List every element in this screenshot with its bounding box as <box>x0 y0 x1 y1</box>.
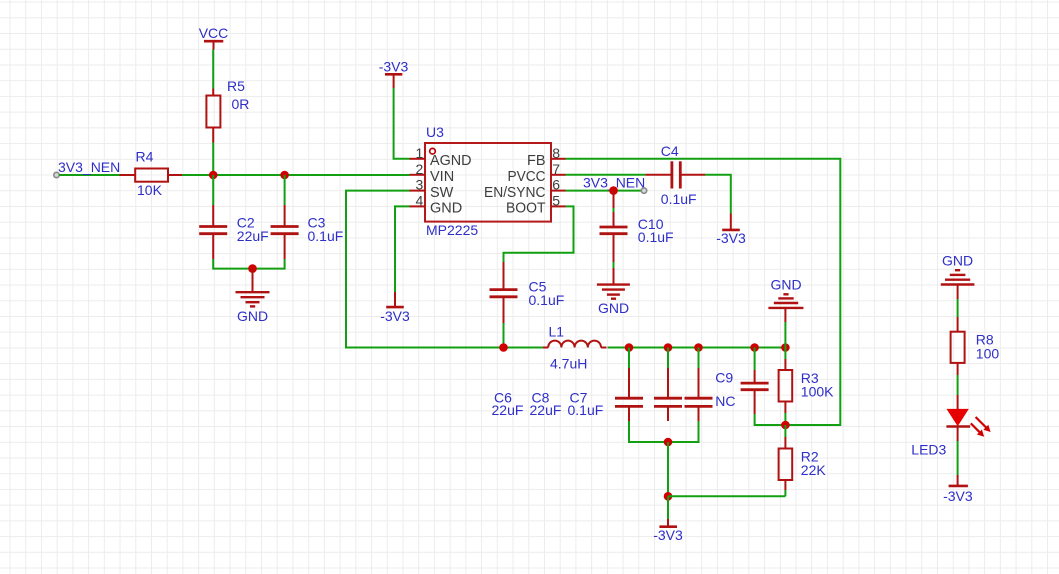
wire L1 to output rail <box>608 347 786 349</box>
svg-text:-3V3: -3V3 <box>379 59 409 75</box>
resistor R3 100K <box>779 359 835 413</box>
svg-text:6: 6 <box>552 177 560 193</box>
svg-text:3V3_NEN: 3V3_NEN <box>58 159 120 175</box>
wire rail to C9 <box>754 348 756 371</box>
wire R8 to LED3 <box>957 375 959 395</box>
resistor R2 22K <box>779 437 827 490</box>
diode LED3 <box>911 395 990 458</box>
svg-text:C9: C9 <box>715 369 733 385</box>
inductor L1 4.7uH <box>543 323 607 371</box>
wire junction to C2 <box>212 175 214 205</box>
wire C9 bottom to divider node <box>755 414 786 425</box>
wire pin3 SW down to switch node rail <box>346 191 544 348</box>
svg-text:-3V3: -3V3 <box>716 230 746 246</box>
wire R3 to divider node <box>784 413 786 425</box>
junction R3 on rail <box>781 343 790 352</box>
svg-text:L1: L1 <box>549 323 565 339</box>
wire C5 to rail <box>503 323 505 348</box>
capacitor C4 0.1uF (series, horizontal) <box>645 143 705 207</box>
wire rail to C6 <box>628 348 630 369</box>
svg-text:2: 2 <box>416 161 424 177</box>
wire GND to R8 <box>957 299 959 317</box>
svg-text:R4: R4 <box>136 149 154 165</box>
power flag -3V3 (right of C4) <box>716 214 746 246</box>
wire C10 upper lead <box>613 208 615 227</box>
svg-text:LED3: LED3 <box>911 442 946 458</box>
pin 1 AGND <box>410 145 472 169</box>
wire LED3 to -3V3 <box>957 441 959 475</box>
wire junction to C3 <box>284 175 286 205</box>
svg-text:SW: SW <box>430 185 454 201</box>
svg-text:-3V3: -3V3 <box>380 308 410 324</box>
pin 7 PVCC <box>508 161 566 185</box>
svg-text:GND: GND <box>237 308 268 324</box>
svg-text:22K: 22K <box>801 462 827 478</box>
ground GND above R8 <box>941 253 975 299</box>
svg-text:1: 1 <box>416 145 424 161</box>
capacitor C6 22uF <box>492 368 644 421</box>
svg-text:100: 100 <box>976 345 1000 361</box>
ground GND above R3 <box>768 276 803 322</box>
wire junction to C10 <box>613 191 615 208</box>
svg-text:GND: GND <box>942 253 973 269</box>
svg-text:-3V3: -3V3 <box>653 527 683 543</box>
power flag -3V3 (below U3 pin4) <box>380 292 410 324</box>
net label 3V3_NEN (left) <box>58 159 120 175</box>
wire down from C8 bottom <box>667 442 669 496</box>
wire R5 to VIN node <box>212 143 214 176</box>
pin 5 BOOT <box>506 193 566 217</box>
op IC U3 MP2225 body <box>425 124 551 238</box>
svg-text:3: 3 <box>416 177 424 193</box>
pin 4 GND <box>410 193 463 217</box>
power flag -3V3 (LED branch) <box>943 475 973 504</box>
junction node VIN/R5/C2 <box>209 171 218 180</box>
svg-text:U3: U3 <box>426 124 444 140</box>
wire rail to R3 <box>784 348 786 360</box>
net label 3V3_NEN (EN/SYNC) <box>583 174 647 193</box>
wire port to R4 <box>59 174 120 176</box>
svg-text:5: 5 <box>552 193 560 209</box>
wire -3V3 node to R2 bottom <box>668 495 785 497</box>
svg-text:-3V3: -3V3 <box>943 488 973 504</box>
svg-text:0.1uF: 0.1uF <box>308 228 344 244</box>
resistor R5 0R <box>206 78 249 143</box>
capacitor C5 0.1uF <box>490 262 565 323</box>
wire R4 to U3 pin2 VIN <box>182 174 410 176</box>
junction C5 on rail <box>499 343 508 352</box>
power flag VCC <box>199 25 229 49</box>
svg-text:8: 8 <box>552 145 560 161</box>
pin 3 SW <box>410 177 454 201</box>
junction C9 on rail <box>750 343 759 352</box>
pin 8 FB <box>527 145 566 169</box>
svg-text:PVCC: PVCC <box>508 169 546 185</box>
svg-text:GND: GND <box>770 276 801 292</box>
svg-text:GND: GND <box>598 300 629 316</box>
junction C8 on rail <box>664 343 673 352</box>
capacitor C2 22uF <box>199 205 269 259</box>
wire -3V3 to U3 pin1 AGND <box>394 88 410 159</box>
wire pin7 PVCC to C4 <box>566 174 646 176</box>
wire C10 to GND <box>613 262 615 268</box>
svg-text:4.7uH: 4.7uH <box>550 355 587 371</box>
svg-text:100K: 100K <box>801 383 834 399</box>
wire rail to C8 <box>667 348 669 369</box>
svg-text:BOOT: BOOT <box>506 201 546 217</box>
capacitor C3 0.1uF <box>271 205 344 259</box>
svg-text:AGND: AGND <box>430 153 472 169</box>
svg-text:0.1uF: 0.1uF <box>661 191 697 207</box>
wire pin8 FB feedback loop to R3/R2 divider <box>566 159 841 425</box>
svg-text:4: 4 <box>416 193 424 209</box>
junction -3V3 node <box>664 492 673 501</box>
svg-text:NC: NC <box>715 393 735 409</box>
wire VCC to R5 <box>212 50 214 89</box>
resistor R4 10K <box>120 149 183 199</box>
power flag -3V3 (top, to U3 pin1) <box>379 59 409 89</box>
svg-text:MP2225: MP2225 <box>426 222 478 238</box>
wire C2/C3 bottoms to ground node <box>213 259 284 269</box>
wire GND to rail <box>784 322 786 348</box>
ground GND below C10 <box>597 268 630 316</box>
junction EN/SYNC / C10 <box>609 186 618 195</box>
svg-text:10K: 10K <box>137 182 163 198</box>
wire pin5 BOOT to C5 <box>504 206 574 262</box>
wire divider node to R2 <box>784 425 786 437</box>
svg-text:0.1uF: 0.1uF <box>638 229 674 245</box>
svg-text:FB: FB <box>527 153 546 169</box>
junction C8 bottom <box>664 438 673 447</box>
capacitor C9 NC <box>715 369 768 414</box>
svg-text:GND: GND <box>430 201 462 217</box>
capacitor C8 22uF <box>530 368 683 421</box>
wire -3V3 node down <box>667 496 669 519</box>
svg-text:R5: R5 <box>227 78 245 94</box>
junction divider node FB <box>781 421 790 430</box>
net port pin (left) <box>54 172 59 177</box>
svg-text:VCC: VCC <box>199 25 229 41</box>
junction ground node under C2/C3 <box>248 264 257 273</box>
wire R2 bottom corner <box>784 490 786 496</box>
svg-text:22uF: 22uF <box>237 228 269 244</box>
pin 6 EN/SYNC <box>484 177 566 201</box>
capacitor C10 0.1uF <box>600 216 674 262</box>
svg-text:22uF: 22uF <box>492 402 524 418</box>
svg-text:0R: 0R <box>232 96 250 112</box>
junction node C3 tap <box>280 171 289 180</box>
svg-text:VIN: VIN <box>430 169 454 185</box>
svg-text:0.1uF: 0.1uF <box>529 292 565 308</box>
wire pin6 EN/SYNC to net port <box>566 190 642 192</box>
wire C6/C7/C8 bottoms joined <box>629 421 699 442</box>
junction C7 on rail <box>694 343 703 352</box>
wire C4 to -3V3 <box>705 175 731 214</box>
capacitor C7 0.1uF <box>568 368 713 421</box>
power flag -3V3 (bottom) <box>653 519 683 543</box>
resistor R8 100 <box>951 317 1000 375</box>
svg-text:EN/SYNC: EN/SYNC <box>484 185 546 201</box>
ground GND under C2/C3 <box>236 269 270 324</box>
svg-text:7: 7 <box>552 161 560 177</box>
wire pin4 GND to -3V3 <box>395 206 410 292</box>
wire rail to C7 <box>698 348 700 369</box>
junction C6 on rail <box>625 343 634 352</box>
pin 2 VIN <box>410 161 455 185</box>
svg-text:22uF: 22uF <box>530 402 562 418</box>
svg-text:C4: C4 <box>661 143 679 159</box>
svg-text:0.1uF: 0.1uF <box>568 402 604 418</box>
